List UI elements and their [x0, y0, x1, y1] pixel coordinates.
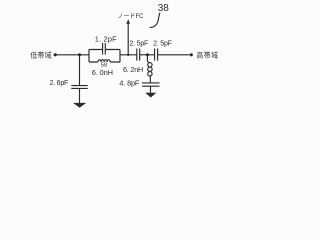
value 6.0nH [92, 68, 113, 77]
LC tank loop outline [89, 50, 120, 63]
svg-text:6. 0nH: 6. 0nH [92, 68, 113, 77]
inductor L 6.2nH coil (vertical) [148, 63, 152, 67]
svg-text:低帯域: 低帯域 [30, 50, 52, 59]
wire coil to cap [149, 76, 151, 83]
node junction2 [146, 53, 149, 56]
inductor L 6.0nH coil (tank bottom branch) [98, 60, 110, 62]
capacitor C 2.6pF plates [71, 86, 87, 89]
node junction1 [78, 53, 81, 56]
capacitor C 1.2pF plates (tank top branch) [103, 43, 106, 55]
wire to ground2 [150, 86, 152, 93]
wire to ground1 [79, 88, 81, 103]
ground (right) [145, 93, 156, 98]
svg-text:2. 5pF: 2. 5pF [129, 41, 148, 48]
wire main left [57, 54, 90, 56]
svg-text:6. 2nH: 6. 2nH [123, 65, 143, 74]
label 高帯域 (high band port) [196, 50, 218, 59]
value 1.2pF [95, 34, 117, 43]
label 低帯域 (low band port) [30, 50, 52, 59]
value 2.5pF second [153, 41, 172, 48]
wire shunt2 down [146, 55, 148, 61]
wire main right [158, 54, 190, 56]
svg-text:4. 8pF: 4. 8pF [119, 79, 139, 88]
leader line for 38 [150, 13, 160, 28]
capacitor C 4.8pF plates [142, 83, 160, 86]
capacitor C 2.5pF first plates [137, 49, 140, 61]
svg-text:2. 6pF: 2. 6pF [49, 80, 68, 87]
value 2.6pF [49, 80, 68, 87]
wire between caps [140, 54, 155, 56]
ref numeral 58 [101, 62, 107, 68]
value 6.2nH [123, 65, 143, 74]
value 4.8pF [119, 79, 139, 88]
arrow to node FC [127, 24, 129, 55]
label ノードFC [118, 14, 145, 20]
value 2.5pF first [129, 41, 148, 48]
node FC dot [127, 54, 129, 56]
ref numeral 38 [158, 3, 170, 14]
wire shunt1 down [79, 55, 81, 85]
capacitor C 2.5pF second plates [155, 49, 158, 61]
wire main mid [120, 54, 137, 56]
svg-text:1. 2pF: 1. 2pF [95, 34, 117, 43]
svg-text:高帯域: 高帯域 [196, 50, 218, 59]
svg-text:ノードFC: ノードFC [118, 14, 145, 20]
svg-text:2. 5pF: 2. 5pF [153, 41, 172, 48]
ground (left) [73, 103, 86, 108]
terminal dot right [190, 53, 193, 56]
terminal dot left [54, 53, 57, 56]
